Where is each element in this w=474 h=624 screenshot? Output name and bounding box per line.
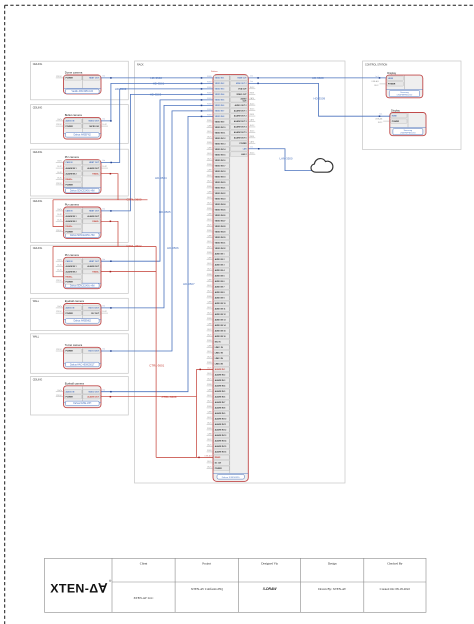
- svg-text:Rx/Tx: Rx/Tx: [57, 209, 62, 211]
- svg-text:VIDEO IN 11: VIDEO IN 11: [215, 133, 226, 135]
- svg-text:16-2C: 16-2C: [250, 103, 255, 105]
- svg-text:POWER: POWER: [66, 313, 74, 315]
- svg-text:RG59: RG59: [207, 450, 211, 452]
- svg-text:HDBT OUT: HDBT OUT: [89, 211, 100, 213]
- svg-text:Created On: 08-18-2022: Created On: 08-18-2022: [380, 587, 411, 591]
- svg-text:VGA OUT: VGA OUT: [238, 87, 247, 90]
- svg-text:RS485-: RS485-: [92, 172, 99, 175]
- svg-text:16-2C: 16-2C: [207, 263, 212, 265]
- svg-text:16-2C: 16-2C: [207, 395, 212, 397]
- svg-text:RS485-: RS485-: [92, 220, 99, 223]
- wire HD-3500 (camera 1 video to DVR VIDEO IN 1): [101, 75, 213, 80]
- svg-text:CAT6: CAT6: [250, 140, 254, 143]
- svg-text:CAT6: CAT6: [250, 119, 254, 122]
- svg-text:HDBT OUT: HDBT OUT: [89, 78, 100, 80]
- svg-text:VIDEO IN 3: VIDEO IN 3: [215, 89, 225, 91]
- svg-text:LINE-A,B: LINE-A,B: [375, 117, 383, 120]
- svg-text:CEILING: CEILING: [33, 63, 43, 66]
- camera 7 stubs: [56, 349, 64, 351]
- svg-text:16-2C: 16-2C: [57, 214, 62, 216]
- svg-text:Dahua HAC-HDW2501T: Dahua HAC-HDW2501T: [70, 363, 95, 366]
- svg-text:18-2C: 18-2C: [207, 357, 212, 359]
- svg-text:CEILING: CEILING: [33, 247, 43, 250]
- DVR U1 (Dahua XVR5832S, rack recorder): [211, 71, 248, 482]
- svg-text:AUDIO IN: AUDIO IN: [66, 120, 75, 123]
- svg-text:HDBT OUT: HDBT OUT: [89, 261, 100, 263]
- svg-text:CAT6: CAT6: [250, 97, 254, 100]
- svg-text:Design: Design: [328, 562, 337, 566]
- svg-text:ALARM OUT 3: ALARM OUT 3: [234, 120, 247, 123]
- svg-text:ALARM IN 11: ALARM IN 11: [215, 423, 226, 426]
- svg-text:Client: Client: [140, 562, 148, 566]
- display 1 stubs: [372, 76, 387, 87]
- camera 6 stubs: [56, 306, 108, 313]
- svg-text:CTRL-3600: CTRL-3600: [127, 197, 142, 201]
- svg-text:VIDEO IN 6: VIDEO IN 6: [215, 105, 225, 107]
- wire HD-3503 (camera 4 video to DVR VIDEO IN 4): [101, 92, 213, 211]
- svg-text:HD-3501: HD-3501: [153, 81, 165, 85]
- svg-text:Ptz camera: Ptz camera: [65, 203, 80, 207]
- svg-text:16-2C: 16-2C: [207, 439, 212, 441]
- svg-text:12V DC: 12V DC: [56, 349, 63, 351]
- svg-text:ALARM IN 15: ALARM IN 15: [215, 445, 227, 448]
- wire HD-3507 (camera 8 video to DVR VIDEO IN 8): [101, 116, 213, 393]
- wire HD-3502 (camera 3 video to DVR VIDEO IN 3): [101, 87, 213, 163]
- svg-text:16-2C: 16-2C: [207, 417, 212, 419]
- svg-text:Eyeball camera: Eyeball camera: [65, 381, 85, 385]
- svg-text:ALARM OUT 6: ALARM OUT 6: [234, 137, 247, 140]
- svg-text:18-2C: 18-2C: [207, 467, 212, 469]
- svg-text:AUDIO IN 16: AUDIO IN 16: [215, 335, 226, 338]
- svg-text:HD-3503: HD-3503: [150, 92, 162, 96]
- svg-text:CEILING: CEILING: [33, 106, 43, 109]
- svg-text:HDMI OUT 2: HDMI OUT 2: [236, 83, 247, 85]
- camera CAM-3504 (PTZ camera, Dahua): [64, 253, 102, 289]
- svg-text:Dahua SD6CE245U-HNI: Dahua SD6CE245U-HNI: [70, 190, 95, 192]
- svg-text:Ptz camera: Ptz camera: [65, 155, 80, 159]
- svg-text:ALARM IN 13: ALARM IN 13: [215, 434, 227, 437]
- svg-text:ALARM IN 7: ALARM IN 7: [215, 401, 226, 404]
- svg-text:VIDEO IN 32: VIDEO IN 32: [215, 248, 226, 250]
- svg-text:VIDEO IN 15: VIDEO IN 15: [215, 155, 226, 157]
- svg-text:AUDIO IN 4: AUDIO IN 4: [215, 269, 226, 272]
- svg-text:18-2C: 18-2C: [250, 109, 255, 111]
- svg-text:Turret camera: Turret camera: [65, 343, 83, 347]
- svg-text:AUDIO IN 11: AUDIO IN 11: [215, 308, 226, 311]
- svg-text:CAT6: CAT6: [207, 235, 211, 238]
- svg-text:POWER: POWER: [66, 185, 74, 187]
- svg-text:Rx/Tx: Rx/Tx: [57, 306, 62, 308]
- svg-text:18-2C: 18-2C: [207, 269, 212, 271]
- wire CTRL-3603 (camera 8 alarm to DVR ALARM IN 1 and RS485): [101, 369, 213, 458]
- svg-text:CAT6: CAT6: [207, 301, 211, 304]
- svg-text:AUDIO IN 12: AUDIO IN 12: [215, 313, 226, 316]
- svg-text:16-2C: 16-2C: [207, 285, 212, 287]
- svg-text:VIDEO IN 7: VIDEO IN 7: [215, 111, 225, 113]
- svg-text:LAN-3500: LAN-3500: [280, 157, 293, 161]
- svg-text:POWER: POWER: [66, 78, 74, 80]
- svg-text:16-2C: 16-2C: [207, 175, 212, 177]
- svg-text:18-2C: 18-2C: [207, 423, 212, 425]
- svg-text:18-2C: 18-2C: [207, 379, 212, 381]
- svg-text:CEILING: CEILING: [33, 200, 43, 203]
- svg-text:18-2C: 18-2C: [374, 85, 379, 87]
- location box 7 (WALL): [31, 334, 129, 374]
- svg-text:Ptz camera: Ptz camera: [65, 253, 80, 257]
- svg-text:VIDEO OUT: VIDEO OUT: [88, 391, 99, 393]
- svg-text:18-2C: 18-2C: [207, 335, 212, 337]
- svg-text:VIDEO IN 25: VIDEO IN 25: [215, 210, 226, 212]
- svg-text:16-2C: 16-2C: [102, 166, 107, 168]
- svg-text:HD-3509: HD-3509: [314, 97, 326, 101]
- camera CAM-3500 (Dome camera, Vaddio): [64, 71, 102, 94]
- svg-text:Dome camera: Dome camera: [65, 71, 83, 75]
- svg-text:18-2C: 18-2C: [207, 401, 212, 403]
- svg-text:ALARM OUT: ALARM OUT: [87, 215, 99, 218]
- svg-text:CEILING: CEILING: [33, 378, 43, 381]
- svg-text:ALARM OUT 2: ALARM OUT 2: [234, 115, 247, 118]
- svg-text:LH43PMFPBGC/GO: LH43PMFPBGC/GO: [397, 94, 413, 96]
- svg-text:LINE 1 IN: LINE 1 IN: [215, 347, 224, 349]
- svg-text:CAT6: CAT6: [207, 147, 211, 150]
- svg-text:AUDIO IN 6: AUDIO IN 6: [215, 280, 225, 283]
- control station section box: [363, 61, 462, 150]
- svg-text:RG59: RG59: [207, 230, 211, 232]
- camera 3 stubs: [56, 161, 108, 185]
- wire LAN-3500 (DVR LAN to cloud): [248, 145, 312, 170]
- camera 8 stubs: [56, 390, 64, 397]
- svg-text:12V DC: 12V DC: [56, 76, 63, 78]
- DVR left port stubs: [205, 76, 213, 469]
- svg-text:HD-3505: HD-3505: [159, 210, 171, 214]
- svg-text:VIDEO IN 19: VIDEO IN 19: [215, 177, 226, 179]
- wire CTRL (camera 3 RS485 to camera 4 loop): [101, 173, 118, 200]
- svg-text:ALARM IN 12: ALARM IN 12: [215, 429, 227, 432]
- wire CTRL-3602 (RS485 bus segment above camera 5): [53, 244, 156, 277]
- svg-text:AUDIO IN 1: AUDIO IN 1: [215, 253, 225, 256]
- svg-text:16-2C: 16-2C: [57, 270, 62, 272]
- location box 4 (CEILING): [31, 198, 129, 242]
- svg-text:DC 12V: DC 12V: [215, 463, 222, 465]
- svg-text:RACK: RACK: [137, 63, 144, 66]
- svg-text:12V DC: 12V DC: [56, 395, 63, 397]
- svg-text:CAT6: CAT6: [207, 125, 211, 128]
- svg-text:16-2C: 16-2C: [207, 373, 212, 375]
- camera CAM-3506 (Turret camera, Dahua): [64, 343, 102, 369]
- svg-text:LINE 4 IN: LINE 4 IN: [215, 363, 224, 366]
- svg-text:ALARM IN 9: ALARM IN 9: [215, 412, 226, 415]
- svg-text:POWER: POWER: [66, 282, 74, 284]
- svg-text:Rx/Tx: Rx/Tx: [57, 161, 62, 163]
- svg-text:ALARM IN 4: ALARM IN 4: [215, 385, 227, 388]
- svg-text:Dahua: Dahua: [211, 71, 218, 73]
- svg-text:RG59: RG59: [207, 186, 211, 188]
- svg-text:Dahua SD6CE245U-HNI: Dahua SD6CE245U-HNI: [70, 235, 95, 237]
- svg-text:18-2C: 18-2C: [207, 137, 212, 139]
- svg-text:RG59: RG59: [207, 296, 211, 298]
- svg-text:RG59: RG59: [207, 318, 211, 320]
- svg-text:Rx/Tx: Rx/Tx: [57, 119, 62, 121]
- svg-text:12V DC: 12V DC: [56, 311, 63, 313]
- svg-text:VIDEO IN 24: VIDEO IN 24: [215, 203, 227, 206]
- display DSP-3500 (Samsung, control station): [386, 71, 423, 98]
- svg-text:18-2C: 18-2C: [207, 159, 212, 161]
- svg-text:VIDEO IN 23: VIDEO IN 23: [215, 199, 226, 201]
- svg-text:VIDEO IN 12: VIDEO IN 12: [215, 138, 226, 140]
- svg-text:VIDEO IN 26: VIDEO IN 26: [215, 215, 226, 217]
- svg-text:18-2C: 18-2C: [207, 247, 212, 249]
- svg-text:16-2C: 16-2C: [57, 265, 62, 267]
- svg-text:16-2C: 16-2C: [102, 124, 107, 126]
- wire CTRL-3600 (RS485 bus segment above camera 4): [53, 197, 148, 226]
- svg-text:CAT6: CAT6: [207, 433, 211, 436]
- svg-text:Dahua XVR5832S: Dahua XVR5832S: [222, 477, 240, 479]
- svg-text:AUDIO IN 8: AUDIO IN 8: [215, 291, 225, 294]
- svg-text:ALARM IN 6: ALARM IN 6: [215, 396, 226, 399]
- svg-text:VIDEO OUT: VIDEO OUT: [88, 121, 99, 123]
- svg-text:18-2C: 18-2C: [250, 152, 255, 154]
- svg-text:RG59: RG59: [207, 428, 211, 430]
- svg-text:ALARM IN 1: ALARM IN 1: [215, 368, 226, 371]
- svg-text:VIDEO IN 4: VIDEO IN 4: [215, 93, 226, 96]
- svg-text:RG59: RG59: [207, 142, 211, 144]
- location box 5 (CEILING): [31, 245, 129, 293]
- svg-text:ALARM OUT: ALARM OUT: [87, 265, 99, 268]
- svg-text:VIDEO IN 17: VIDEO IN 17: [215, 166, 226, 168]
- svg-text:VIDEO IN 28: VIDEO IN 28: [215, 226, 226, 228]
- wire HD-3501 (camera 2 video to DVR VIDEO IN 2): [101, 81, 213, 121]
- svg-text:POWER: POWER: [388, 84, 396, 86]
- svg-text:16-2C: 16-2C: [207, 241, 212, 243]
- svg-text:WALL: WALL: [33, 336, 40, 339]
- svg-text:CAT6: CAT6: [207, 279, 211, 282]
- svg-text:CAM IN: CAM IN: [66, 210, 73, 213]
- svg-text:POWER: POWER: [66, 351, 74, 353]
- svg-text:Display: Display: [387, 71, 396, 75]
- svg-text:HDMI: HDMI: [392, 115, 397, 117]
- svg-text:Eyeball camera: Eyeball camera: [65, 299, 85, 303]
- svg-text:ALARM IN 3: ALARM IN 3: [215, 379, 226, 382]
- svg-text:RS485: RS485: [215, 456, 221, 459]
- svg-text:16-2C: 16-2C: [57, 166, 62, 168]
- svg-text:CAT6: CAT6: [207, 411, 211, 414]
- svg-text:POWER: POWER: [66, 396, 74, 398]
- svg-text:VIDEO IN 20: VIDEO IN 20: [215, 182, 226, 184]
- camera CAM-3507 (Eyeball camera, Dahua): [64, 381, 102, 407]
- svg-text:VIDEO IN 18: VIDEO IN 18: [215, 171, 226, 173]
- svg-text:16-2C: 16-2C: [207, 153, 212, 155]
- svg-text:VIDEO IN 8: VIDEO IN 8: [215, 116, 225, 118]
- svg-text:RG59: RG59: [207, 164, 211, 166]
- cloud (internet/network): [311, 159, 333, 173]
- svg-text:CTRL-3601: CTRL-3601: [149, 363, 164, 367]
- svg-text:RG59: RG59: [250, 136, 254, 138]
- display DSP-3501 (Samsung, control station): [390, 108, 426, 135]
- camera 4 stubs: [56, 209, 64, 232]
- svg-text:MICRO SD: MICRO SD: [89, 126, 99, 128]
- svg-text:AUDIO IN 3: AUDIO IN 3: [215, 264, 225, 267]
- svg-text:CAT6: CAT6: [207, 191, 211, 194]
- svg-text:HD-3504: HD-3504: [155, 176, 167, 180]
- svg-text:VIDEO IN 16: VIDEO IN 16: [215, 160, 226, 162]
- svg-text:CAT6: CAT6: [207, 389, 211, 392]
- svg-text:VIDEO IN 30: VIDEO IN 30: [215, 237, 226, 239]
- svg-text:CAM IN: CAM IN: [66, 260, 73, 263]
- svg-text:CTRL-3602: CTRL-3602: [127, 244, 142, 248]
- location box 6 (WALL): [31, 298, 129, 330]
- camera CAM-3502 (PTZ camera, Dahua): [64, 155, 102, 193]
- svg-text:Drawn By: XTEN-AV: Drawn By: XTEN-AV: [318, 587, 347, 591]
- svg-text:ALARM IN 1: ALARM IN 1: [66, 215, 78, 218]
- svg-text:POWER: POWER: [240, 143, 248, 145]
- svg-text:RS485+: RS485+: [66, 178, 74, 181]
- svg-text:ALARM OUT 1: ALARM OUT 1: [234, 109, 247, 112]
- svg-text:VIDEO IN 2: VIDEO IN 2: [215, 83, 225, 85]
- svg-text:RG59: RG59: [207, 274, 211, 276]
- svg-text:LH43PMFPBGC/GO: LH43PMFPBGC/GO: [400, 132, 416, 134]
- svg-text:12V OUT: 12V OUT: [91, 313, 100, 315]
- svg-text:VIDEO IN 29: VIDEO IN 29: [215, 232, 226, 234]
- svg-text:ALARM IN 2: ALARM IN 2: [215, 374, 226, 377]
- svg-text:HDMI OUT: HDMI OUT: [237, 78, 247, 80]
- svg-text:HDBT OUT: HDBT OUT: [89, 162, 100, 164]
- svg-text:CAT6: CAT6: [207, 169, 211, 172]
- svg-text:RS485+: RS485+: [66, 276, 74, 279]
- XTEN-AV logo: [50, 579, 112, 596]
- svg-text:LINE 2 IN: LINE 2 IN: [215, 353, 224, 355]
- svg-text:CAT6: CAT6: [207, 345, 211, 348]
- svg-text:RG59: RG59: [207, 120, 211, 122]
- svg-text:18-2C: 18-2C: [207, 445, 212, 447]
- location box 1 (CEILING): [31, 61, 129, 100]
- svg-text:CAT6: CAT6: [207, 257, 211, 260]
- wire CTRL (camera 4 RS485 to camera 5 loop): [101, 221, 118, 247]
- svg-text:In-1: In-1: [379, 113, 382, 115]
- svg-text:HD-3506: HD-3506: [167, 246, 179, 250]
- svg-text:16-2C: 16-2C: [207, 329, 212, 331]
- svg-text:ALARM OUT 4: ALARM OUT 4: [234, 126, 248, 129]
- svg-text:AUDIO IN 14: AUDIO IN 14: [215, 324, 227, 327]
- svg-text:LINE-A,B: LINE-A,B: [372, 80, 380, 83]
- svg-text:CAT6: CAT6: [207, 213, 211, 216]
- svg-text:AUDIO IN 15: AUDIO IN 15: [215, 330, 226, 333]
- svg-text:ALARM IN 8: ALARM IN 8: [215, 407, 226, 410]
- svg-text:Rx/Tx: Rx/Tx: [57, 259, 62, 261]
- svg-text:VIDEO IN 9: VIDEO IN 9: [215, 122, 225, 124]
- svg-text:CAT6: CAT6: [207, 323, 211, 326]
- svg-text:RG59: RG59: [207, 384, 211, 386]
- svg-text:Bullet camera: Bullet camera: [65, 113, 83, 117]
- camera 5 stubs: [56, 259, 64, 282]
- svg-text:Designed Via: Designed Via: [261, 562, 278, 566]
- wire HD-3504 (camera 5 video to DVR VIDEO IN 5): [101, 99, 213, 262]
- svg-text:ALARM IN 1: ALARM IN 1: [66, 167, 78, 170]
- svg-text:WALL: WALL: [33, 300, 40, 303]
- svg-text:18-2C: 18-2C: [102, 311, 107, 313]
- svg-text:ALARM OUT 5: ALARM OUT 5: [234, 131, 247, 134]
- wire CTRL-3601 (camera 5 RS485 bus riser to DVR RS485): [101, 247, 213, 459]
- svg-text:16-2C: 16-2C: [207, 307, 212, 309]
- camera 2 stubs: [56, 119, 108, 126]
- svg-text:VIDEO IN 14: VIDEO IN 14: [215, 148, 227, 151]
- svg-text:Dahua N45EFN2: Dahua N45EFN2: [74, 135, 92, 137]
- svg-text:LINE 3 IN: LINE 3 IN: [215, 358, 224, 360]
- svg-text:POWER: POWER: [215, 468, 223, 470]
- camera CAM-3505 (Eyeball camera, Dahua): [64, 299, 102, 325]
- svg-text:VIDEO IN 1: VIDEO IN 1: [215, 78, 225, 80]
- svg-text:16-2C: 16-2C: [207, 219, 212, 221]
- camera 1 power stub: [56, 76, 64, 78]
- camera CAM-3501 (Bullet camera, Dahua): [64, 113, 102, 139]
- svg-text:VIDEO IN 31: VIDEO IN 31: [215, 243, 226, 245]
- svg-text:Rx/Tx: Rx/Tx: [57, 390, 62, 392]
- svg-text:ALARM IN 10: ALARM IN 10: [215, 418, 227, 421]
- display 2 stubs: [375, 113, 390, 124]
- location box 2 (CEILING): [31, 105, 129, 144]
- svg-text:18-2C: 18-2C: [207, 291, 212, 293]
- svg-text:XTEN-AV California HQ: XTEN-AV California HQ: [191, 587, 224, 591]
- location box 8 (CEILING): [31, 377, 129, 416]
- svg-text:16-2C: 16-2C: [207, 197, 212, 199]
- svg-text:AUDIO IN: AUDIO IN: [66, 390, 75, 393]
- rack section box: [135, 61, 346, 483]
- svg-text:AUDIO IN 2: AUDIO IN 2: [215, 258, 225, 261]
- svg-text:12V DC: 12V DC: [56, 230, 63, 232]
- svg-text:XTEN-Δ∀: XTEN-Δ∀: [50, 581, 107, 595]
- svg-text:Vaddio 999-9950-100: Vaddio 999-9950-100: [72, 91, 94, 93]
- svg-text:ALARM IN 14: ALARM IN 14: [215, 440, 228, 443]
- svg-text:HDCVI OUT: HDCVI OUT: [88, 351, 99, 353]
- svg-text:CTRL-3603: CTRL-3603: [162, 395, 177, 399]
- svg-text:AUDIO IN 10: AUDIO IN 10: [215, 302, 226, 305]
- svg-text:16-2C: 16-2C: [250, 125, 255, 127]
- svg-text:18-2C: 18-2C: [378, 122, 383, 124]
- svg-text:CEILING: CEILING: [33, 151, 43, 154]
- svg-text:16-2C: 16-2C: [207, 461, 212, 463]
- svg-text:ALARM OUT: ALARM OUT: [87, 395, 99, 398]
- svg-text:18-2C: 18-2C: [207, 225, 212, 227]
- svg-text:Dahua SD6CE245U-HNI: Dahua SD6CE245U-HNI: [70, 285, 95, 287]
- svg-text:18-2C: 18-2C: [250, 131, 255, 133]
- svg-text:ALARM IN 16: ALARM IN 16: [215, 451, 227, 454]
- svg-text:RS485+: RS485+: [66, 225, 74, 228]
- svg-text:HD-3507: HD-3507: [183, 282, 195, 286]
- svg-text:AUDIO IN 13: AUDIO IN 13: [215, 319, 226, 322]
- svg-text:HDCVI OUT: HDCVI OUT: [88, 308, 99, 310]
- svg-text:VIDEO IN 22: VIDEO IN 22: [215, 193, 226, 195]
- svg-text:HDMI: HDMI: [388, 78, 393, 80]
- svg-text:Checked By: Checked By: [387, 562, 403, 566]
- svg-text:RG59: RG59: [250, 92, 254, 94]
- svg-text:CONTROL STATION: CONTROL STATION: [365, 63, 388, 66]
- svg-text:18-2C: 18-2C: [57, 177, 62, 179]
- title block table: [45, 558, 427, 612]
- svg-text:Project: Project: [202, 562, 211, 566]
- camera CAM-3503 (PTZ camera, Dahua): [64, 203, 102, 239]
- svg-text:ALARM IN 1: ALARM IN 1: [66, 265, 78, 268]
- svg-text:HD-3508: HD-3508: [312, 76, 324, 80]
- svg-text:AUDIO IN 5: AUDIO IN 5: [215, 275, 225, 278]
- svg-text:18-2C: 18-2C: [207, 181, 212, 183]
- svg-text:16-2C: 16-2C: [207, 131, 212, 133]
- svg-text:16-2C: 16-2C: [207, 351, 212, 353]
- svg-text:RS485-: RS485-: [92, 270, 99, 273]
- title block headers and values: [134, 562, 411, 600]
- svg-text:CAM IN: CAM IN: [66, 161, 73, 164]
- svg-text:ALARM IN 2: ALARM IN 2: [66, 220, 77, 223]
- svg-text:ALARM OUT: ALARM OUT: [87, 167, 99, 170]
- svg-text:VIDEO IN 13: VIDEO IN 13: [215, 144, 226, 146]
